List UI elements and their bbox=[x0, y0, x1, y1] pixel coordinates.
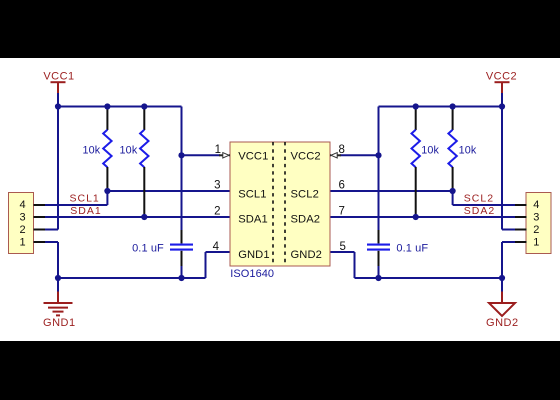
svg-text:8: 8 bbox=[339, 144, 345, 156]
isolation barrier dashed line right bbox=[284, 142, 286, 266]
wire SDA2 from U1 pin7 to J2 pin3 bbox=[330, 216, 516, 218]
node SDA1 / R2 bbox=[141, 214, 147, 220]
J1 pin stubs bbox=[34, 205, 46, 242]
wire VCC2 riser to J2 pin2 bbox=[501, 107, 503, 230]
svg-text:SDA1: SDA1 bbox=[70, 205, 101, 217]
node R4 top bbox=[450, 103, 456, 109]
wire VCC2 stem bbox=[501, 93, 503, 107]
wire J1 pin1 to GND1 bbox=[44, 241, 58, 243]
U1 pin8 input arrow bbox=[331, 153, 337, 158]
capacitor C1 0.1 uF bbox=[170, 230, 193, 266]
svg-text:4: 4 bbox=[533, 199, 539, 211]
connector J1 (left header) bbox=[9, 193, 34, 254]
svg-text:SCL2: SCL2 bbox=[291, 188, 319, 200]
capacitor C2 0.1 uF bbox=[367, 230, 390, 266]
wire right top rail bbox=[379, 106, 503, 108]
svg-text:2: 2 bbox=[20, 224, 26, 236]
svg-text:10k: 10k bbox=[459, 145, 477, 157]
wire left bottom rail GND1 bbox=[58, 277, 206, 279]
node VCC2 / rail bbox=[499, 103, 505, 109]
svg-text:ISO1640: ISO1640 bbox=[230, 268, 274, 280]
J2 pin stubs bbox=[515, 205, 527, 242]
svg-text:SDA2: SDA2 bbox=[464, 205, 495, 217]
wire U1 pin5 GND2 bbox=[330, 251, 355, 253]
wire C1 bottom bbox=[181, 265, 183, 278]
node SCL2 / R4 bbox=[450, 188, 456, 194]
wire VCC1 riser to J1 pin2 bbox=[57, 107, 59, 230]
wire GND2 stem bbox=[501, 278, 503, 293]
node VCC1 / rail bbox=[55, 103, 61, 109]
svg-text:1: 1 bbox=[20, 236, 26, 248]
svg-text:SDA1: SDA1 bbox=[238, 214, 268, 226]
node C2 bottom bbox=[375, 275, 381, 281]
svg-text:4: 4 bbox=[20, 199, 26, 211]
wire GND2 riser bbox=[501, 242, 503, 278]
wire SCL1 horizontal to U1 pin3 bbox=[107, 190, 230, 192]
connector J2 (right header) bbox=[526, 193, 551, 254]
wire J2 pin1 to GND2 bbox=[502, 241, 516, 243]
svg-text:2: 2 bbox=[533, 224, 539, 236]
svg-text:4: 4 bbox=[213, 241, 220, 253]
wire U1 pin8 VCC2 bbox=[340, 154, 379, 156]
node R2 top bbox=[141, 103, 147, 109]
isolation barrier dashed line left bbox=[272, 142, 274, 266]
U1 pin1 input arrow bbox=[223, 153, 229, 158]
svg-text:SCL2: SCL2 bbox=[464, 193, 494, 205]
wire U1 pin5 riser bbox=[354, 252, 356, 278]
wire GND1 stem bbox=[57, 278, 59, 293]
svg-text:7: 7 bbox=[339, 206, 345, 218]
wire SCL1 from J1 pin4 bbox=[44, 204, 107, 206]
node GND2 rail right bbox=[499, 275, 505, 281]
wire GND1 riser bbox=[57, 242, 59, 278]
svg-text:SDA2: SDA2 bbox=[291, 214, 321, 226]
wire C2 bottom bbox=[378, 265, 380, 278]
node GND1 rail left bbox=[55, 275, 61, 281]
wire SDA1 from J1 pin3 to U1 pin2 bbox=[44, 216, 230, 218]
svg-text:1: 1 bbox=[215, 144, 221, 156]
wire U1 pin1 VCC1 bbox=[182, 154, 221, 156]
ground symbol GND1 (earth bars) bbox=[44, 292, 73, 316]
resistor R3 10k (right, SDA2 pullup) bbox=[412, 108, 420, 216]
svg-text:2: 2 bbox=[214, 206, 220, 218]
node U1 pin8 tap bbox=[375, 152, 381, 158]
U1 pin8 lead bbox=[337, 154, 341, 156]
wire VCC1 stem bbox=[57, 93, 59, 107]
wire J1 pin2 stub bbox=[44, 229, 58, 231]
svg-text:3: 3 bbox=[20, 212, 26, 224]
power symbol VCC2 bbox=[495, 82, 510, 94]
svg-text:10k: 10k bbox=[421, 145, 439, 157]
wire U1 pin4 riser bbox=[205, 252, 207, 278]
junction dots right bbox=[375, 103, 505, 281]
wire SCL2 to J2 pin4 bbox=[453, 204, 516, 206]
svg-text:VCC1: VCC1 bbox=[43, 70, 74, 82]
node SCL1 / R1 bbox=[104, 188, 110, 194]
wire right rail drop to U1 pin8 and C2 bbox=[378, 107, 380, 232]
svg-text:1: 1 bbox=[533, 236, 539, 248]
svg-text:GND2: GND2 bbox=[486, 317, 519, 329]
svg-text:3: 3 bbox=[533, 212, 539, 224]
node C1 bottom bbox=[178, 275, 184, 281]
svg-text:10k: 10k bbox=[120, 145, 138, 157]
resistor R4 10k (right, SCL2 pullup) bbox=[448, 108, 456, 190]
svg-text:5: 5 bbox=[340, 241, 346, 253]
wire SCL2 riser bbox=[452, 190, 454, 205]
svg-text:VCC1: VCC1 bbox=[238, 151, 268, 163]
power symbol VCC1 bbox=[51, 82, 66, 94]
node R3 top bbox=[413, 103, 419, 109]
svg-text:VCC2: VCC2 bbox=[486, 70, 517, 82]
node R1 top bbox=[104, 103, 110, 109]
U1 pin1 lead bbox=[219, 154, 223, 156]
IC U1 ISO1640 body bbox=[230, 142, 330, 266]
svg-text:3: 3 bbox=[214, 180, 220, 192]
wire SCL2 horizontal from U1 pin6 bbox=[330, 190, 453, 192]
svg-text:6: 6 bbox=[339, 180, 345, 192]
svg-text:SCL1: SCL1 bbox=[238, 188, 266, 200]
resistor R1 10k (left, SCL1 pullup) bbox=[103, 108, 111, 190]
J2 pin numbers bbox=[533, 199, 539, 248]
wire left top rail bbox=[58, 106, 182, 108]
wire right bottom rail GND2 bbox=[355, 277, 503, 279]
junction dots left bbox=[55, 103, 185, 281]
node U1 pin1 tap bbox=[178, 152, 184, 158]
svg-text:VCC2: VCC2 bbox=[291, 151, 321, 163]
svg-text:SCL1: SCL1 bbox=[70, 193, 100, 205]
svg-text:GND1: GND1 bbox=[238, 249, 269, 261]
svg-text:0.1 uF: 0.1 uF bbox=[396, 243, 428, 255]
svg-text:GND1: GND1 bbox=[43, 317, 76, 329]
ground symbol GND2 (open triangle) bbox=[489, 292, 515, 317]
resistor R2 10k (left, SDA1 pullup) bbox=[140, 108, 148, 216]
white schematic sheet bbox=[0, 58, 560, 341]
svg-text:GND2: GND2 bbox=[291, 249, 322, 261]
J1 pin numbers bbox=[20, 199, 26, 248]
svg-text:0.1 uF: 0.1 uF bbox=[132, 243, 164, 255]
node SDA2 / R3 bbox=[413, 214, 419, 220]
svg-text:10k: 10k bbox=[82, 145, 100, 157]
wire left rail drop to U1 pin1 and C1 bbox=[181, 107, 183, 232]
wire SCL1 riser bbox=[106, 190, 108, 205]
wire U1 pin4 GND1 bbox=[206, 251, 231, 253]
wire J2 pin2 stub bbox=[502, 229, 516, 231]
